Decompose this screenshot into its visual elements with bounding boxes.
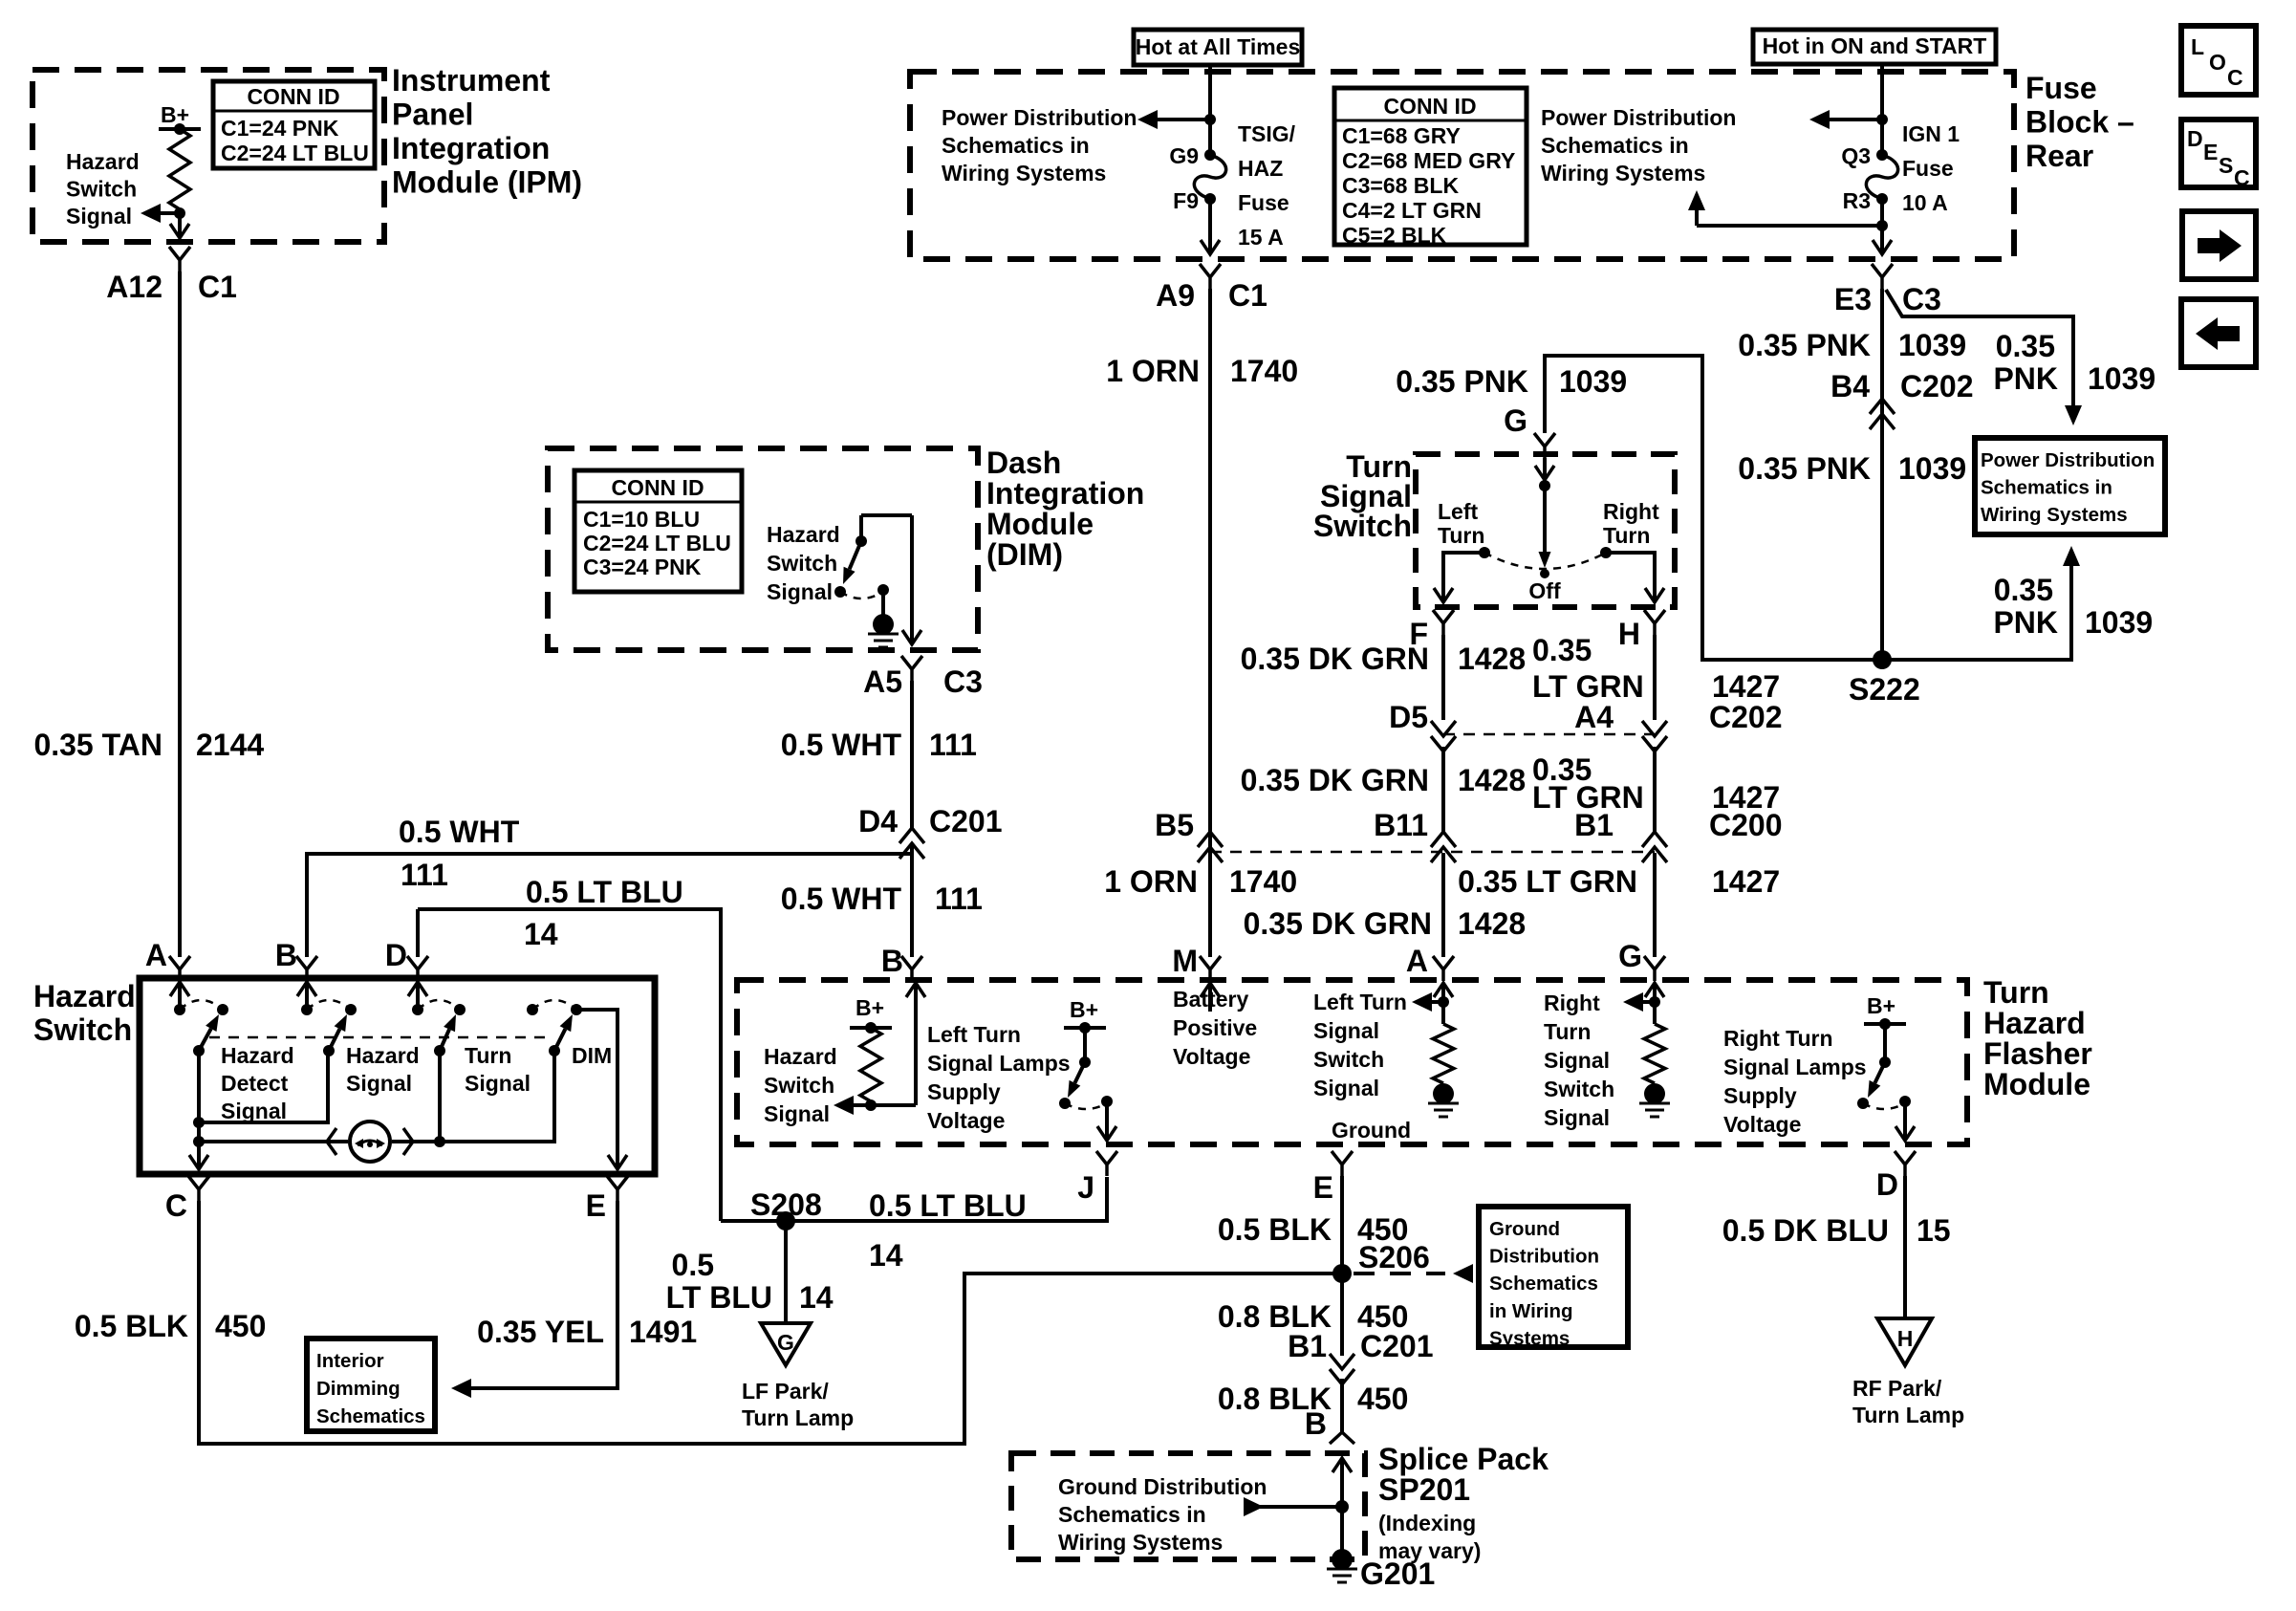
svg-text:G: G [777,1330,794,1355]
svg-text:1039: 1039 [2085,605,2153,640]
svg-text:Schematics: Schematics [316,1405,425,1427]
svg-text:LT GRN: LT GRN [1532,669,1644,704]
svg-text:0.5 WHT: 0.5 WHT [399,815,520,849]
svg-text:Module: Module [986,507,1094,541]
svg-text:C2=24 LT BLU: C2=24 LT BLU [583,531,731,555]
svg-text:Voltage: Voltage [1723,1112,1801,1137]
label: 0.35 LT GRN 1427 (middle) [1532,752,1780,815]
connector E (flasher module) [1313,1151,1353,1205]
legend box: DESC [2181,120,2256,190]
svg-text:(Indexing: (Indexing [1378,1511,1476,1535]
svg-text:Signal Lamps: Signal Lamps [927,1051,1071,1076]
svg-text:TSIG/: TSIG/ [1238,121,1296,146]
signal arrow: Hazard Switch Signal (IPM) [66,149,180,229]
svg-text:Instrument: Instrument [392,63,551,98]
svg-text:Off: Off [1528,578,1561,603]
svg-text:0.5 WHT: 0.5 WHT [781,882,902,916]
svg-text:Hazard: Hazard [764,1044,837,1069]
connector M (flasher module) [1172,944,1221,981]
svg-text:1039: 1039 [1559,364,1627,399]
switch pole: turn signal [408,982,466,1056]
svg-text:LF Park/: LF Park/ [742,1379,829,1404]
label: 0.5 LT BLU 14 (to LF lamp) [666,1248,834,1315]
svg-text:1039: 1039 [2088,361,2155,396]
node B+ (IPM) [159,102,201,135]
svg-text:Voltage: Voltage [1173,1044,1250,1069]
svg-text:1 ORN: 1 ORN [1104,864,1198,899]
svg-text:C3: C3 [943,664,983,699]
svg-text:0.35 DK GRN: 0.35 DK GRN [1244,906,1432,941]
switch pole: hazard detect [170,982,228,1056]
svg-text:0.35: 0.35 [1996,329,2055,363]
ground (flasher left) [1433,1083,1454,1104]
svg-text:C201: C201 [929,804,1003,838]
svg-text:E: E [1313,1170,1333,1205]
svg-text:Left Turn: Left Turn [927,1022,1021,1047]
svg-text:Schematics in: Schematics in [1981,477,2112,499]
connector C (hazard switch) [165,1176,209,1223]
label: 0.5 BLK 450 [75,1309,267,1343]
svg-text:0.5: 0.5 [672,1248,714,1282]
svg-text:PNK: PNK [1993,605,2058,640]
svg-text:B1: B1 [1574,808,1614,842]
connector F (turn signal switch) [1409,610,1454,651]
label: 0.35 LT GRN 1427 (lower) [1458,864,1780,899]
splice S208 [750,1187,822,1230]
wire: left turn output F [1434,547,1490,602]
svg-text:14: 14 [869,1238,903,1273]
wire: flasher to turn signal and DIM poles [434,1051,554,1147]
svg-text:0.5 WHT: 0.5 WHT [781,728,902,762]
connector ID table (fuse block C1-C5) [1334,88,1527,248]
svg-text:Signal: Signal [1313,1076,1379,1100]
svg-text:Power Distribution: Power Distribution [1541,105,1736,130]
signal arrow: Power Distribution (right) [1541,105,1882,185]
svg-text:Hot in ON and START: Hot in ON and START [1763,33,1987,58]
svg-text:M: M [1172,944,1198,978]
svg-text:LT BLU: LT BLU [666,1280,772,1315]
svg-text:B: B [275,938,297,972]
svg-text:F9: F9 [1173,188,1199,213]
svg-text:14: 14 [524,917,558,951]
svg-text:Wiring Systems: Wiring Systems [1541,161,1705,185]
Fuse Block title text [2025,71,2134,173]
svg-text:Fuse: Fuse [1902,156,1954,181]
ground (DIM internal) [868,614,899,647]
in-line connector D4/C201 (WHT) [858,804,1002,859]
connector D (flasher module) [1876,1151,1916,1202]
label: 0.5 LT BLU 14 (S208 to J) [869,1188,1027,1273]
svg-text:G9: G9 [1169,143,1199,168]
svg-text:B1: B1 [1288,1329,1327,1363]
svg-text:1428: 1428 [1458,763,1526,797]
in-line connector B1/C201 (BLK) [1288,1329,1433,1384]
wire: 0.35 DK GRN 1428 (F to C202) [1441,635,1445,720]
connector H (turn signal switch) [1618,610,1665,651]
svg-text:C202: C202 [1900,369,1974,403]
svg-text:450: 450 [1357,1382,1408,1416]
switch pole: DIM [527,1000,582,1056]
svg-text:C1=68 GRY: C1=68 GRY [1342,123,1461,148]
connector J (flasher module) [1077,1151,1117,1205]
svg-text:Fuse: Fuse [1238,190,1289,215]
fuse: TSIG/HAZ Fuse 15 A [1169,121,1295,250]
svg-text:1039: 1039 [1898,451,1966,486]
svg-text:Wiring Systems: Wiring Systems [1981,504,2128,526]
svg-text:C2=24 LT BLU: C2=24 LT BLU [221,141,369,165]
connector A (hazard switch) [145,938,190,981]
connector A (flasher module) [1406,944,1454,981]
switch: left turn signal lamps supply (flasher) [1059,997,1116,1141]
wire: 1 ORN 1740 (A9 to flasher M) [1208,289,1212,957]
svg-text:Schematics in: Schematics in [942,133,1090,158]
connector A9/C1 (fuse block to ORN) [1156,264,1267,313]
wire: 0.35 TAN 2144 (A12 to hazard switch A) [178,272,182,957]
svg-text:E3: E3 [1834,282,1872,316]
wire: DK GRN between C202 and C200 [1441,747,1445,833]
label: 0.35 PNK 1039 (below C202) [1738,451,1966,486]
svg-text:B4: B4 [1830,369,1870,403]
label: Hazard Signal [346,1043,420,1096]
svg-text:Voltage: Voltage [927,1108,1005,1133]
svg-text:Ground: Ground [1489,1218,1560,1240]
svg-text:HAZ: HAZ [1238,156,1283,181]
svg-text:B+: B+ [1070,997,1098,1022]
splice S206 [1332,1240,1430,1283]
svg-text:Hazard: Hazard [1983,1006,2086,1040]
svg-text:A5: A5 [863,664,902,699]
svg-text:0.35 LT GRN: 0.35 LT GRN [1458,864,1637,899]
svg-text:Right: Right [1603,499,1659,524]
svg-text:Splice Pack: Splice Pack [1378,1442,1549,1476]
svg-text:B: B [881,944,903,978]
resistor: hazard switch signal (flasher) [860,1028,881,1101]
svg-text:C201: C201 [1360,1329,1434,1363]
label: 0.35 LT GRN 1427 (upper) [1532,633,1780,704]
svg-text:C: C [2234,165,2250,190]
wire: right turn output H [1600,547,1664,602]
reference box: Interior Dimming Schematics [307,1339,435,1431]
svg-text:H: H [1618,617,1640,651]
svg-text:C3=68 BLK: C3=68 BLK [1342,173,1459,198]
svg-text:Schematics in: Schematics in [1541,133,1689,158]
Flasher module title [1983,975,2092,1101]
wire: 0.35 YEL 1491 (E to interior dimming) [451,1201,617,1398]
label: 0.35 DK GRN 1428 (middle) [1241,763,1527,797]
svg-text:0.35 PNK: 0.35 PNK [1738,328,1871,362]
svg-text:Module: Module [1983,1067,2090,1101]
svg-text:CONN ID: CONN ID [247,84,339,109]
wire: LT GRN C200 to flasher G [1653,853,1657,957]
svg-text:Block –: Block – [2025,105,2134,140]
switch: turn signal switch lever [1484,458,1606,603]
svg-text:Turn: Turn [1983,975,2049,1010]
reference arrow: ground distribution schematics (dashed) [1354,1264,1473,1283]
svg-text:C3: C3 [1902,282,1941,316]
svg-text:0.35 PNK: 0.35 PNK [1738,451,1871,486]
node: resistor output junction [174,207,185,219]
label: 0.5 WHT 111 (lower) [781,882,983,916]
svg-text:S206: S206 [1358,1240,1430,1274]
module box: Dash Integration Module (DIM) [548,448,978,650]
label: Right Turn Signal Lamps Supply Voltage [1723,1026,1867,1137]
module box: Fuse Block - Rear [910,72,2014,259]
svg-text:Hazard: Hazard [346,1043,420,1068]
in-line connector B4/C202 (PNK) [1830,369,1973,429]
svg-text:Schematics: Schematics [1489,1273,1598,1295]
connector ID table (DIM C1-C3) [574,470,742,592]
legend box: LOC [2181,26,2256,95]
wire: LT GRN between C202 and C200 [1653,747,1657,833]
svg-text:C2=68 MED GRY: C2=68 MED GRY [1342,148,1515,173]
reference box: Power Distribution Schematics in Wiring Systems [1975,438,2165,534]
ground (flasher right) [1644,1083,1665,1104]
label: Hazard Switch Signal (DIM) [767,522,840,604]
resistor: right turn signal switch signal (flasher) [1644,1024,1665,1083]
connector D (hazard switch) [385,938,428,981]
svg-text:D: D [385,938,407,972]
svg-text:450: 450 [215,1309,266,1343]
svg-text:Turn: Turn [1544,1019,1591,1044]
wire: S208 down to LF lamp [784,1221,788,1323]
svg-text:Power Distribution: Power Distribution [942,105,1137,130]
resistor: hazard switch signal pull-up (IPM) [169,129,190,209]
DIM title text [986,446,1144,572]
svg-text:Panel: Panel [392,98,473,132]
svg-text:B+: B+ [856,995,884,1020]
wire: S222 branch up to power distribution box [1882,546,2080,660]
svg-text:Signal: Signal [66,204,132,229]
svg-text:Supply: Supply [927,1079,1001,1104]
svg-text:Turn: Turn [1438,523,1484,548]
svg-text:D: D [1876,1167,1898,1202]
label box: Hot at All Times [1134,30,1302,65]
svg-text:Schematics in: Schematics in [1058,1502,1206,1527]
svg-text:Power Distribution: Power Distribution [1981,449,2155,471]
wire: E3 exit arrow [1880,233,1884,254]
svg-text:G: G [1504,403,1527,438]
wire: M pin stub (battery positive voltage) [1201,983,1220,1012]
svg-text:1428: 1428 [1458,906,1526,941]
wire: PNK branch to power distribution (top right) [1886,290,2073,405]
svg-text:Switch: Switch [764,1073,834,1098]
module box: Turn Hazard Flasher Module [737,980,1967,1144]
svg-text:0.35 TAN: 0.35 TAN [33,728,162,762]
svg-text:0.5 DK BLU: 0.5 DK BLU [1722,1213,1889,1248]
connector E3/C3 (fuse block to PNK) [1834,264,1941,316]
wire: IGN1 fuse output [1880,199,1884,233]
mechanical link (dashed) [209,1036,549,1039]
label: 0.35 DK GRN 1428 (lower) [1244,906,1527,941]
svg-text:A9: A9 [1156,278,1195,313]
svg-text:0.5 LT BLU: 0.5 LT BLU [526,875,683,909]
module box: Splice Pack SP201 [1011,1453,1365,1559]
svg-text:Dimming: Dimming [316,1378,401,1400]
svg-text:G201: G201 [1360,1557,1435,1591]
svg-text:Hazard: Hazard [221,1043,294,1068]
in-line connector D5/A4 C202 (F and H) [1389,700,1782,751]
svg-text:Hazard: Hazard [767,522,840,547]
label: 1 ORN 1740 (upper) [1106,354,1298,388]
svg-text:Supply: Supply [1723,1083,1797,1108]
connector B (hazard switch) [275,938,317,981]
svg-text:Signal: Signal [1544,1105,1610,1130]
module box: Turn Signal Switch [1416,454,1675,607]
label: 0.35 DK GRN 1428 (upper) [1241,642,1527,676]
label: Right Turn contact [1603,499,1659,548]
svg-text:D5: D5 [1389,700,1428,734]
node B+ (flasher hazard resistor) [850,995,892,1034]
label: Left Turn contact [1438,499,1484,548]
Hazard Switch title [33,979,136,1047]
label: 0.5 LT BLU 14 [524,875,683,951]
svg-text:Interior: Interior [316,1350,384,1372]
signal arrow: right turn signal switch signal [1623,983,1664,1024]
svg-text:in Wiring: in Wiring [1489,1300,1573,1322]
label: 0.35 PNK 1039 (branch) [1993,329,2155,396]
svg-text:D4: D4 [858,804,898,838]
wire: 0.5 WHT 111 (A5 to D4) [910,681,914,830]
svg-text:Hazard: Hazard [66,149,140,174]
svg-text:Switch: Switch [1313,1047,1384,1072]
svg-text:G: G [1618,939,1642,973]
svg-text:Switch: Switch [1313,509,1412,543]
label: Hazard Detect Signal [221,1043,294,1123]
svg-text:15: 15 [1917,1213,1951,1248]
signal arrow: Hazard Switch Signal (flasher) [764,1044,916,1126]
svg-text:C1=10 BLU: C1=10 BLU [583,507,700,532]
svg-text:10 A: 10 A [1902,190,1948,215]
connector B (flasher module) [881,944,922,981]
connector G (flasher module) [1618,939,1665,981]
svg-text:E: E [586,1188,606,1223]
connector A5/C3 (DIM) [863,656,983,699]
label: 0.8 BLK 450 (upper) [1218,1299,1409,1334]
wire: 0.5 WHT 111 (D4 to flasher B and hazard switch B) [307,845,912,957]
wire: 0.5 LT BLU 14 (S208 to flasher J) [721,1177,1107,1221]
svg-text:CONN ID: CONN ID [1383,94,1476,119]
svg-text:0.35 DK GRN: 0.35 DK GRN [1241,642,1429,676]
svg-text:C4=2 LT GRN: C4=2 LT GRN [1342,198,1482,223]
svg-text:0.35: 0.35 [1532,633,1592,667]
wire: DIM pole output to E [576,1010,627,1169]
svg-text:H: H [1897,1326,1914,1351]
Splice Pack title [1378,1442,1549,1563]
svg-text:Signal: Signal [346,1071,412,1096]
svg-text:Fuse: Fuse [2025,71,2097,105]
connector E (hazard switch) [586,1176,628,1223]
svg-text:1 ORN: 1 ORN [1106,354,1200,388]
svg-text:R3: R3 [1843,188,1871,213]
IPM title text [392,63,582,200]
svg-text:B11: B11 [1374,808,1428,842]
svg-text:Positive: Positive [1173,1015,1257,1040]
svg-text:Ground: Ground [1332,1118,1411,1143]
label: Turn Signal [465,1043,531,1096]
svg-text:Battery: Battery [1173,987,1248,1012]
fuse: IGN 1 Fuse 10 A [1841,121,1960,215]
svg-text:C1: C1 [1228,278,1267,313]
svg-text:E: E [2203,140,2218,164]
svg-text:Rear: Rear [2025,139,2093,173]
svg-text:0.35: 0.35 [1994,573,2053,607]
svg-text:S222: S222 [1849,672,1920,707]
label: 0.35 PNK 1039 (to G) [1396,364,1627,399]
off-page connector G: LF Park/Turn Lamp [742,1323,854,1430]
svg-text:111: 111 [935,882,983,916]
wire: DK GRN C200 to flasher A [1441,853,1445,957]
wire: IPM pin A12 exit [170,213,189,238]
svg-text:111: 111 [929,728,977,762]
connector B (splice pack) [1305,1406,1354,1444]
svg-text:14: 14 [799,1280,834,1315]
label: Left Turn Signal Switch Signal [1313,990,1407,1100]
signal arrow: left turn signal switch signal [1412,983,1453,1024]
label: 0.5 DK BLU 15 [1722,1213,1951,1248]
svg-text:0.35 PNK: 0.35 PNK [1396,364,1528,399]
svg-text:Distribution: Distribution [1489,1246,1599,1268]
wire: 0.5 BLK 450 (flasher E to S206) [1340,1176,1344,1274]
svg-text:B5: B5 [1155,808,1194,842]
svg-text:Turn: Turn [465,1043,511,1068]
module box: Instrument Panel Integration Module (IPM) [32,70,384,242]
svg-text:Turn: Turn [1603,523,1650,548]
wire: splice pack internal [1332,1458,1352,1559]
svg-text:C1=24 PNK: C1=24 PNK [221,116,339,141]
svg-text:C1: C1 [198,270,237,304]
label: 0.35 PNK 1039 (S222 branch) [1993,573,2153,640]
svg-text:Left Turn: Left Turn [1313,990,1407,1014]
flasher symbol (hazard switch) [199,1121,440,1162]
svg-text:L: L [2191,34,2204,59]
svg-text:A4: A4 [1574,700,1614,734]
svg-text:Switch: Switch [33,1012,132,1047]
svg-text:O: O [2209,50,2226,75]
svg-text:SP201: SP201 [1378,1472,1470,1507]
svg-text:(DIM): (DIM) [986,537,1063,572]
wire: 0.8 BLK 450 (S206 to C201) [1340,1274,1344,1356]
reference arrow: ground distribution (splice pack) [1244,1497,1349,1516]
connector G (turn signal switch) [1504,403,1555,458]
label: Ground Distribution Schematics in Wiring Systems (dashed box) [1058,1474,1267,1555]
svg-text:C202: C202 [1709,700,1783,734]
node: IGN1 output junction [1876,220,1888,231]
svg-text:Dash: Dash [986,446,1061,480]
label: 1 ORN 1740 (lower) [1104,864,1297,899]
svg-text:Right Turn: Right Turn [1723,1026,1833,1051]
svg-text:Integration: Integration [986,476,1144,511]
svg-text:Hot at All Times: Hot at All Times [1136,34,1301,59]
label: Right Turn Signal Switch Signal [1544,991,1614,1130]
svg-text:1740: 1740 [1229,864,1297,899]
svg-text:Switch: Switch [1544,1077,1614,1101]
label: 0.35 TAN 2144 [33,728,264,762]
svg-text:C5=2 BLK: C5=2 BLK [1342,223,1447,248]
wire: fuse output to A9 [1201,199,1220,254]
svg-text:Hazard: Hazard [33,979,136,1013]
label box: Hot in ON and START [1753,30,1996,64]
svg-text:Turn Lamp: Turn Lamp [742,1405,854,1430]
svg-text:RF Park/: RF Park/ [1852,1376,1942,1401]
wire: B pin to hazard resistor (flasher) [906,983,925,1105]
wire: 0.8 BLK 450 (C201 to SP201) [1340,1379,1344,1434]
svg-text:Right: Right [1544,991,1600,1015]
wire: ignition feed into fuse block [1880,64,1884,155]
arrow into power distribution box [2065,405,2082,425]
svg-text:S208: S208 [750,1187,822,1222]
svg-text:Signal: Signal [764,1101,830,1126]
legend box: forward arrow [2182,211,2256,279]
